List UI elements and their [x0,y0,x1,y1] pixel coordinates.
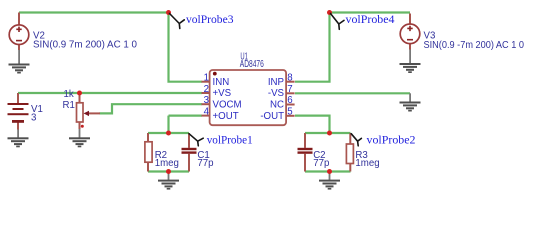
svg-text:8: 8 [287,73,292,84]
svg-text:1meg: 1meg [155,158,179,169]
svg-text:+VS: +VS [213,88,232,99]
svg-text:77p: 77p [313,158,329,169]
svg-text:3: 3 [204,95,209,106]
svg-text:2: 2 [204,84,209,95]
svg-text:-OUT: -OUT [260,111,284,122]
svg-text:5: 5 [287,107,292,118]
svg-text:SIN(0.9 -7m 200) AC 1 0: SIN(0.9 -7m 200) AC 1 0 [424,40,525,51]
svg-text:R1: R1 [63,100,75,111]
svg-text:SIN(0.9 7m 200) AC 1 0: SIN(0.9 7m 200) AC 1 0 [33,40,138,51]
svg-text:NC: NC [270,99,284,110]
svg-text:1k: 1k [64,89,74,100]
svg-text:+OUT: +OUT [213,111,239,122]
svg-text:77p: 77p [197,158,213,169]
svg-text:6: 6 [287,95,292,106]
svg-text:volProbe1: volProbe1 [207,134,253,146]
svg-text:1: 1 [204,73,209,84]
svg-text:volProbe3: volProbe3 [186,14,234,26]
svg-text:-VS: -VS [268,88,285,99]
svg-text:3: 3 [31,112,36,123]
svg-text:4: 4 [204,107,210,118]
svg-text:VOCM: VOCM [213,99,242,110]
svg-text:INP: INP [268,77,284,88]
svg-text:volProbe2: volProbe2 [367,134,416,146]
svg-text:1meg: 1meg [355,158,379,169]
svg-text:7: 7 [287,84,292,95]
svg-text:AD8476: AD8476 [240,59,264,70]
svg-text:INN: INN [213,77,230,88]
svg-text:volProbe4: volProbe4 [346,14,395,26]
